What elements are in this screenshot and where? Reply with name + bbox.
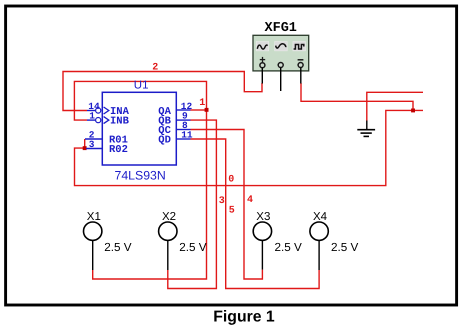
svg-text:2.5 V: 2.5 V (104, 241, 131, 254)
op IC U1 74LS93N body (102, 92, 176, 165)
svg-text:4: 4 (247, 195, 253, 206)
XFG1 pin + (261, 68, 263, 84)
svg-text:5: 5 (229, 206, 235, 217)
XFG1 terminal - (298, 63, 303, 68)
probe X4 (310, 222, 328, 240)
pin QC (8) (176, 129, 190, 131)
pin QA (12) (176, 109, 190, 111)
svg-text:Figure 1: Figure 1 (213, 309, 275, 326)
svg-text:X4: X4 (313, 211, 328, 223)
ground (366, 121, 368, 130)
svg-text:1: 1 (89, 111, 95, 122)
svg-text:11: 11 (181, 130, 193, 141)
probe X2 (159, 222, 177, 240)
junction XFG- net0 (411, 109, 415, 113)
XFG1 terminal common (278, 63, 283, 68)
svg-text:X1: X1 (87, 211, 101, 223)
svg-text:74LS93N: 74LS93N (115, 168, 166, 182)
svg-text:1: 1 (199, 98, 205, 109)
XFG1 button triangle (275, 42, 288, 51)
XFG1 pin - (300, 68, 302, 84)
svg-text:3: 3 (89, 139, 95, 150)
pin R01 (2) (85, 138, 102, 140)
probe X3 (253, 222, 271, 240)
XFG1 minus mark (298, 59, 304, 61)
pin R02 (3) (86, 148, 102, 150)
svg-text:XFG1: XFG1 (265, 21, 297, 36)
XFG1 button sine (256, 42, 269, 51)
wire net2 INA to XFG+ (63, 72, 262, 111)
XFG1 plus mark (262, 57, 264, 63)
XFG1 pin common (280, 68, 282, 92)
XFG1 terminal + (260, 63, 265, 68)
junction QA (205, 108, 209, 112)
wire ground net (367, 92, 423, 120)
XFG1 button square (293, 42, 306, 51)
svg-text:QD: QD (158, 135, 171, 147)
pin QB (9) (176, 119, 190, 121)
wire net4 QC to X3 (191, 130, 263, 280)
svg-text:X3: X3 (256, 211, 270, 223)
pin QD (11) (176, 138, 190, 140)
junction R01/R02 (83, 146, 87, 150)
wire net1 QA to INB and X1 (191, 109, 207, 111)
wire net3 QB to X2 (168, 120, 217, 288)
svg-text:2.5 V: 2.5 V (275, 241, 302, 254)
svg-text:2.5 V: 2.5 V (331, 241, 358, 254)
svg-text:R02: R02 (109, 144, 128, 156)
svg-text:X2: X2 (162, 211, 176, 223)
wire net5 QD to X4 (191, 139, 320, 289)
pin INA (14) (87, 110, 95, 112)
svg-text:0: 0 (228, 175, 234, 186)
probe X1 (84, 222, 102, 240)
svg-text:2: 2 (152, 63, 158, 74)
svg-text:INB: INB (110, 116, 130, 128)
pin INB (1) (87, 119, 95, 121)
function generator XFG1 body (253, 35, 309, 71)
svg-text:U1: U1 (134, 79, 149, 91)
svg-text:2.5 V: 2.5 V (179, 241, 206, 254)
svg-text:3: 3 (219, 196, 225, 207)
wire net0 R01/R02 to XFG- (84, 139, 86, 148)
